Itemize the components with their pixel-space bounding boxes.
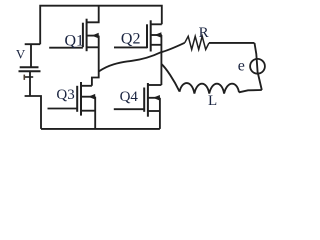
svg-text:Q4: Q4 <box>120 89 139 105</box>
H-bridge circuit schematic <box>0 0 275 147</box>
transistor Q3 source stub <box>81 110 95 112</box>
transistor Q4 source stub <box>148 110 160 112</box>
svg-text:e: e <box>238 58 245 75</box>
wire: Q4 gate lead <box>114 108 144 110</box>
wire: right leg midpoint (Q2 source to Q4 drain) <box>160 35 162 85</box>
transistor Q2 body stub <box>151 34 162 36</box>
svg-text:R: R <box>199 25 209 41</box>
transistor Q3 drain stub <box>81 85 92 87</box>
transistor Q1 drain stub <box>87 6 99 23</box>
resistor R zigzag <box>185 36 209 49</box>
transistor Q4 body stub <box>148 97 160 99</box>
transistor Q2 gate bar <box>146 24 148 48</box>
svg-text:Q3: Q3 <box>56 87 74 103</box>
transistor Q1 source stub <box>87 46 99 48</box>
transistor Q4 body arrow <box>153 95 160 101</box>
battery V polarity tick <box>23 75 25 80</box>
transistor Q4 gate bar <box>143 88 145 112</box>
svg-text:V: V <box>16 47 26 62</box>
transistor Q1 channel bar <box>86 19 88 52</box>
wire: bottom link from inductor to source e <box>239 90 262 92</box>
transistor Q1 body arrow <box>92 33 99 39</box>
wire: battery bottom lead with jog <box>25 72 41 129</box>
wire: Q2 gate lead <box>114 46 147 48</box>
wire: Q4 source to bottom rail <box>159 98 161 129</box>
wire: top supply rail <box>40 6 162 45</box>
transistor Q3 channel bar <box>80 82 82 116</box>
transistor Q2 body arrow <box>154 32 161 38</box>
wire: Q1 gate lead <box>49 47 83 49</box>
svg-text:Q2: Q2 <box>121 31 141 48</box>
transistor Q1 gate bar <box>82 23 84 48</box>
transistor Q3 body arrow <box>88 94 95 100</box>
svg-text:L: L <box>208 93 217 109</box>
transistor Q2 channel bar <box>150 20 152 51</box>
wire: curved link from left midpoint to resistor <box>99 43 185 72</box>
battery V short plate mark <box>24 76 34 78</box>
wire: Q3 source to bottom rail <box>94 97 96 129</box>
wire: line through source e (top corner to bottom corner) <box>255 43 262 90</box>
wire: resistor to right corner <box>209 42 255 44</box>
wire: curved link from right midpoint down to inductor <box>161 64 179 92</box>
battery V plate 2 (long) <box>19 70 41 72</box>
svg-text:Q1: Q1 <box>65 33 85 50</box>
wire: bottom return rail <box>41 128 160 130</box>
wire: left leg midpoint (Q1 source to Q3 drain) <box>92 36 99 86</box>
wire: battery top lead <box>25 44 41 66</box>
battery V plate 1 (top long) <box>20 66 39 68</box>
transistor Q2 source stub <box>151 44 162 46</box>
transistor Q2 drain stub <box>151 23 162 25</box>
transistor Q3 body stub <box>81 96 95 98</box>
wire: Q3 gate lead <box>48 108 78 110</box>
source e circle <box>250 59 265 74</box>
transistor Q4 drain stub <box>148 84 162 86</box>
transistor Q4 channel bar <box>147 83 149 117</box>
transistor Q1 body stub <box>87 35 99 37</box>
transistor Q3 gate bar <box>76 86 78 112</box>
inductor L coil <box>180 83 240 94</box>
